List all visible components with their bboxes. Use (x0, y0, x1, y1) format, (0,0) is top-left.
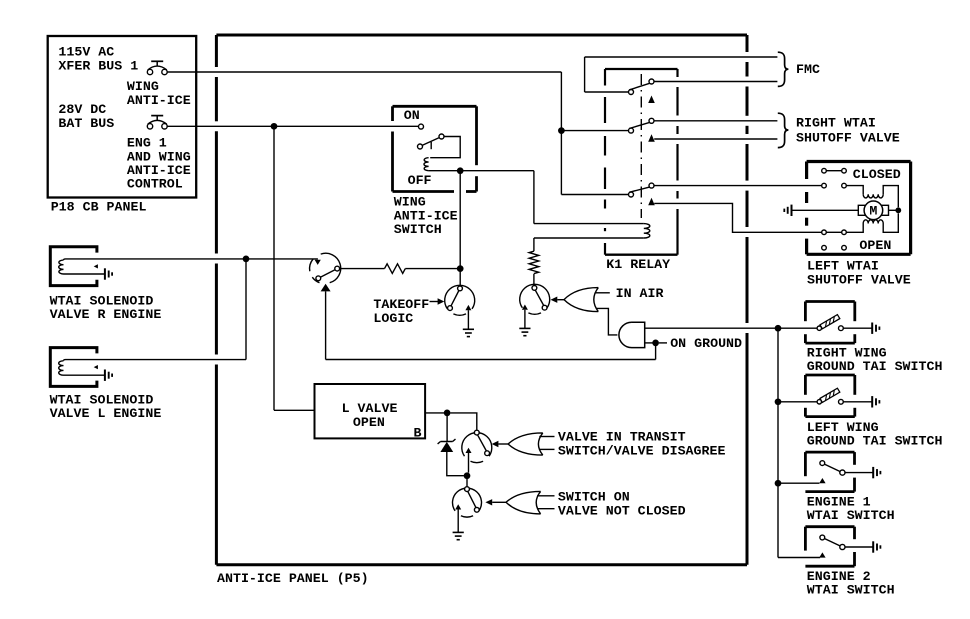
svg-text:LEFT WTAI: LEFT WTAI (807, 259, 879, 274)
svg-text:OPEN: OPEN (859, 238, 891, 253)
svg-text:OFF: OFF (408, 173, 432, 188)
svg-text:WTAI SWITCH: WTAI SWITCH (807, 508, 895, 523)
svg-text:LOGIC: LOGIC (373, 311, 413, 326)
svg-text:B: B (414, 426, 422, 441)
svg-text:VALVE R ENGINE: VALVE R ENGINE (50, 307, 162, 322)
svg-text:ENG 1: ENG 1 (127, 136, 167, 151)
svg-text:115V AC: 115V AC (58, 45, 114, 60)
svg-text:SWITCH: SWITCH (394, 222, 442, 237)
svg-text:WTAI SWITCH: WTAI SWITCH (807, 583, 895, 598)
svg-text:XFER BUS 1: XFER BUS 1 (58, 59, 138, 74)
svg-text:ON: ON (404, 108, 420, 123)
svg-text:WING: WING (127, 79, 159, 94)
svg-text:SHUTOFF VALVE: SHUTOFF VALVE (796, 131, 900, 146)
svg-text:VALVE IN TRANSIT: VALVE IN TRANSIT (558, 430, 686, 445)
svg-text:CLOSED: CLOSED (853, 167, 901, 182)
svg-text:IN AIR: IN AIR (616, 286, 664, 301)
svg-text:GROUND TAI SWITCH: GROUND TAI SWITCH (807, 434, 943, 449)
svg-text:TAKEOFF: TAKEOFF (373, 297, 429, 312)
svg-text:ANTI-ICE PANEL (P5): ANTI-ICE PANEL (P5) (217, 571, 369, 586)
svg-text:ON GROUND: ON GROUND (670, 336, 742, 351)
svg-text:ANTI-ICE: ANTI-ICE (127, 93, 191, 108)
svg-text:VALVE L ENGINE: VALVE L ENGINE (50, 406, 162, 421)
svg-text:RIGHT WTAI: RIGHT WTAI (796, 116, 876, 131)
svg-text:P18 CB PANEL: P18 CB PANEL (51, 200, 147, 215)
svg-text:CONTROL: CONTROL (127, 177, 183, 192)
svg-text:K1 RELAY: K1 RELAY (606, 257, 670, 272)
svg-text:VALVE NOT CLOSED: VALVE NOT CLOSED (558, 504, 686, 519)
svg-text:SHUTOFF VALVE: SHUTOFF VALVE (807, 273, 911, 288)
svg-text:SWITCH/VALVE DISAGREE: SWITCH/VALVE DISAGREE (558, 444, 726, 459)
svg-text:OPEN: OPEN (353, 415, 385, 430)
svg-text:M: M (869, 203, 877, 218)
svg-text:GROUND TAI SWITCH: GROUND TAI SWITCH (807, 359, 943, 374)
svg-text:28V DC: 28V DC (58, 102, 106, 117)
svg-text:FMC: FMC (796, 62, 820, 77)
svg-text:L VALVE: L VALVE (342, 401, 398, 416)
svg-text:BAT BUS: BAT BUS (58, 116, 114, 131)
svg-text:WING: WING (394, 195, 426, 210)
svg-text:SWITCH ON: SWITCH ON (558, 490, 630, 505)
